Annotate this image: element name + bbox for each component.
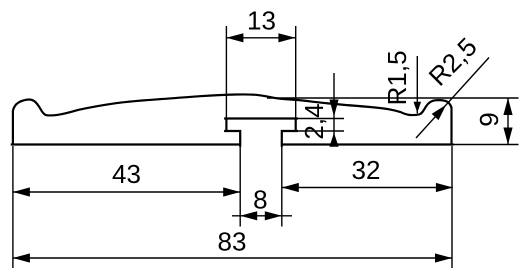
svg-text:9: 9 [474,112,504,126]
svg-text:R1,5: R1,5 [382,50,412,105]
svg-text:2,4: 2,4 [299,103,329,139]
svg-text:43: 43 [112,159,141,189]
svg-text:32: 32 [352,155,381,185]
svg-text:8: 8 [253,185,267,215]
svg-text:83: 83 [218,227,247,257]
svg-text:13: 13 [247,6,276,36]
